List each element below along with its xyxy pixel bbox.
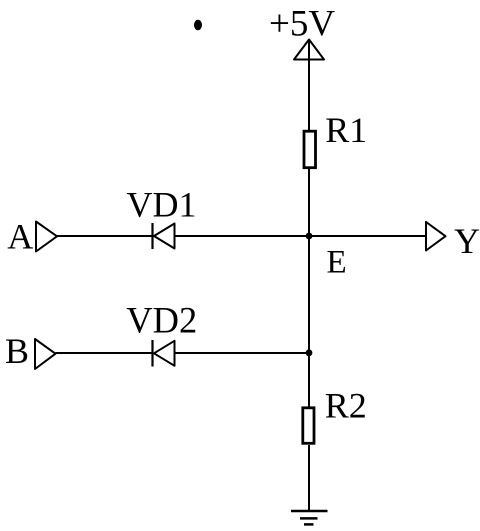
svg-text:R1: R1	[325, 110, 367, 150]
wire node B to R2	[308, 353, 310, 407]
power symbol +5V triangle	[294, 40, 324, 60]
node B junction dot	[306, 349, 313, 356]
svg-text:R2: R2	[325, 386, 367, 426]
ground	[291, 511, 328, 524]
wire R2 to ground	[308, 445, 310, 511]
diode VD2	[153, 340, 175, 367]
svg-text:A: A	[7, 216, 33, 256]
wire power to R1	[308, 41, 310, 133]
svg-text:VD2: VD2	[126, 300, 197, 341]
wire VD1 to node E	[175, 235, 310, 237]
wire node E to node B	[308, 236, 310, 353]
wire VD2 to node B	[175, 352, 310, 354]
svg-text:+5V: +5V	[269, 4, 335, 45]
wire node E to Y	[309, 235, 426, 237]
node E junction dot	[306, 233, 313, 240]
wire B to VD2	[56, 352, 152, 354]
svg-text:VD1: VD1	[127, 184, 197, 224]
svg-text:B: B	[5, 331, 29, 371]
output Y terminal triangle	[426, 222, 446, 251]
input A terminal triangle	[36, 222, 57, 252]
svg-text:E: E	[327, 244, 347, 280]
svg-text:Y: Y	[454, 221, 480, 261]
stray dot mark	[194, 20, 202, 31]
diode VD1	[153, 223, 175, 249]
resistor R2	[303, 408, 314, 444]
input B terminal triangle	[35, 339, 56, 369]
resistor R1	[304, 131, 316, 168]
wire A to VD1	[57, 235, 152, 237]
wire R1 to node E	[308, 167, 310, 236]
